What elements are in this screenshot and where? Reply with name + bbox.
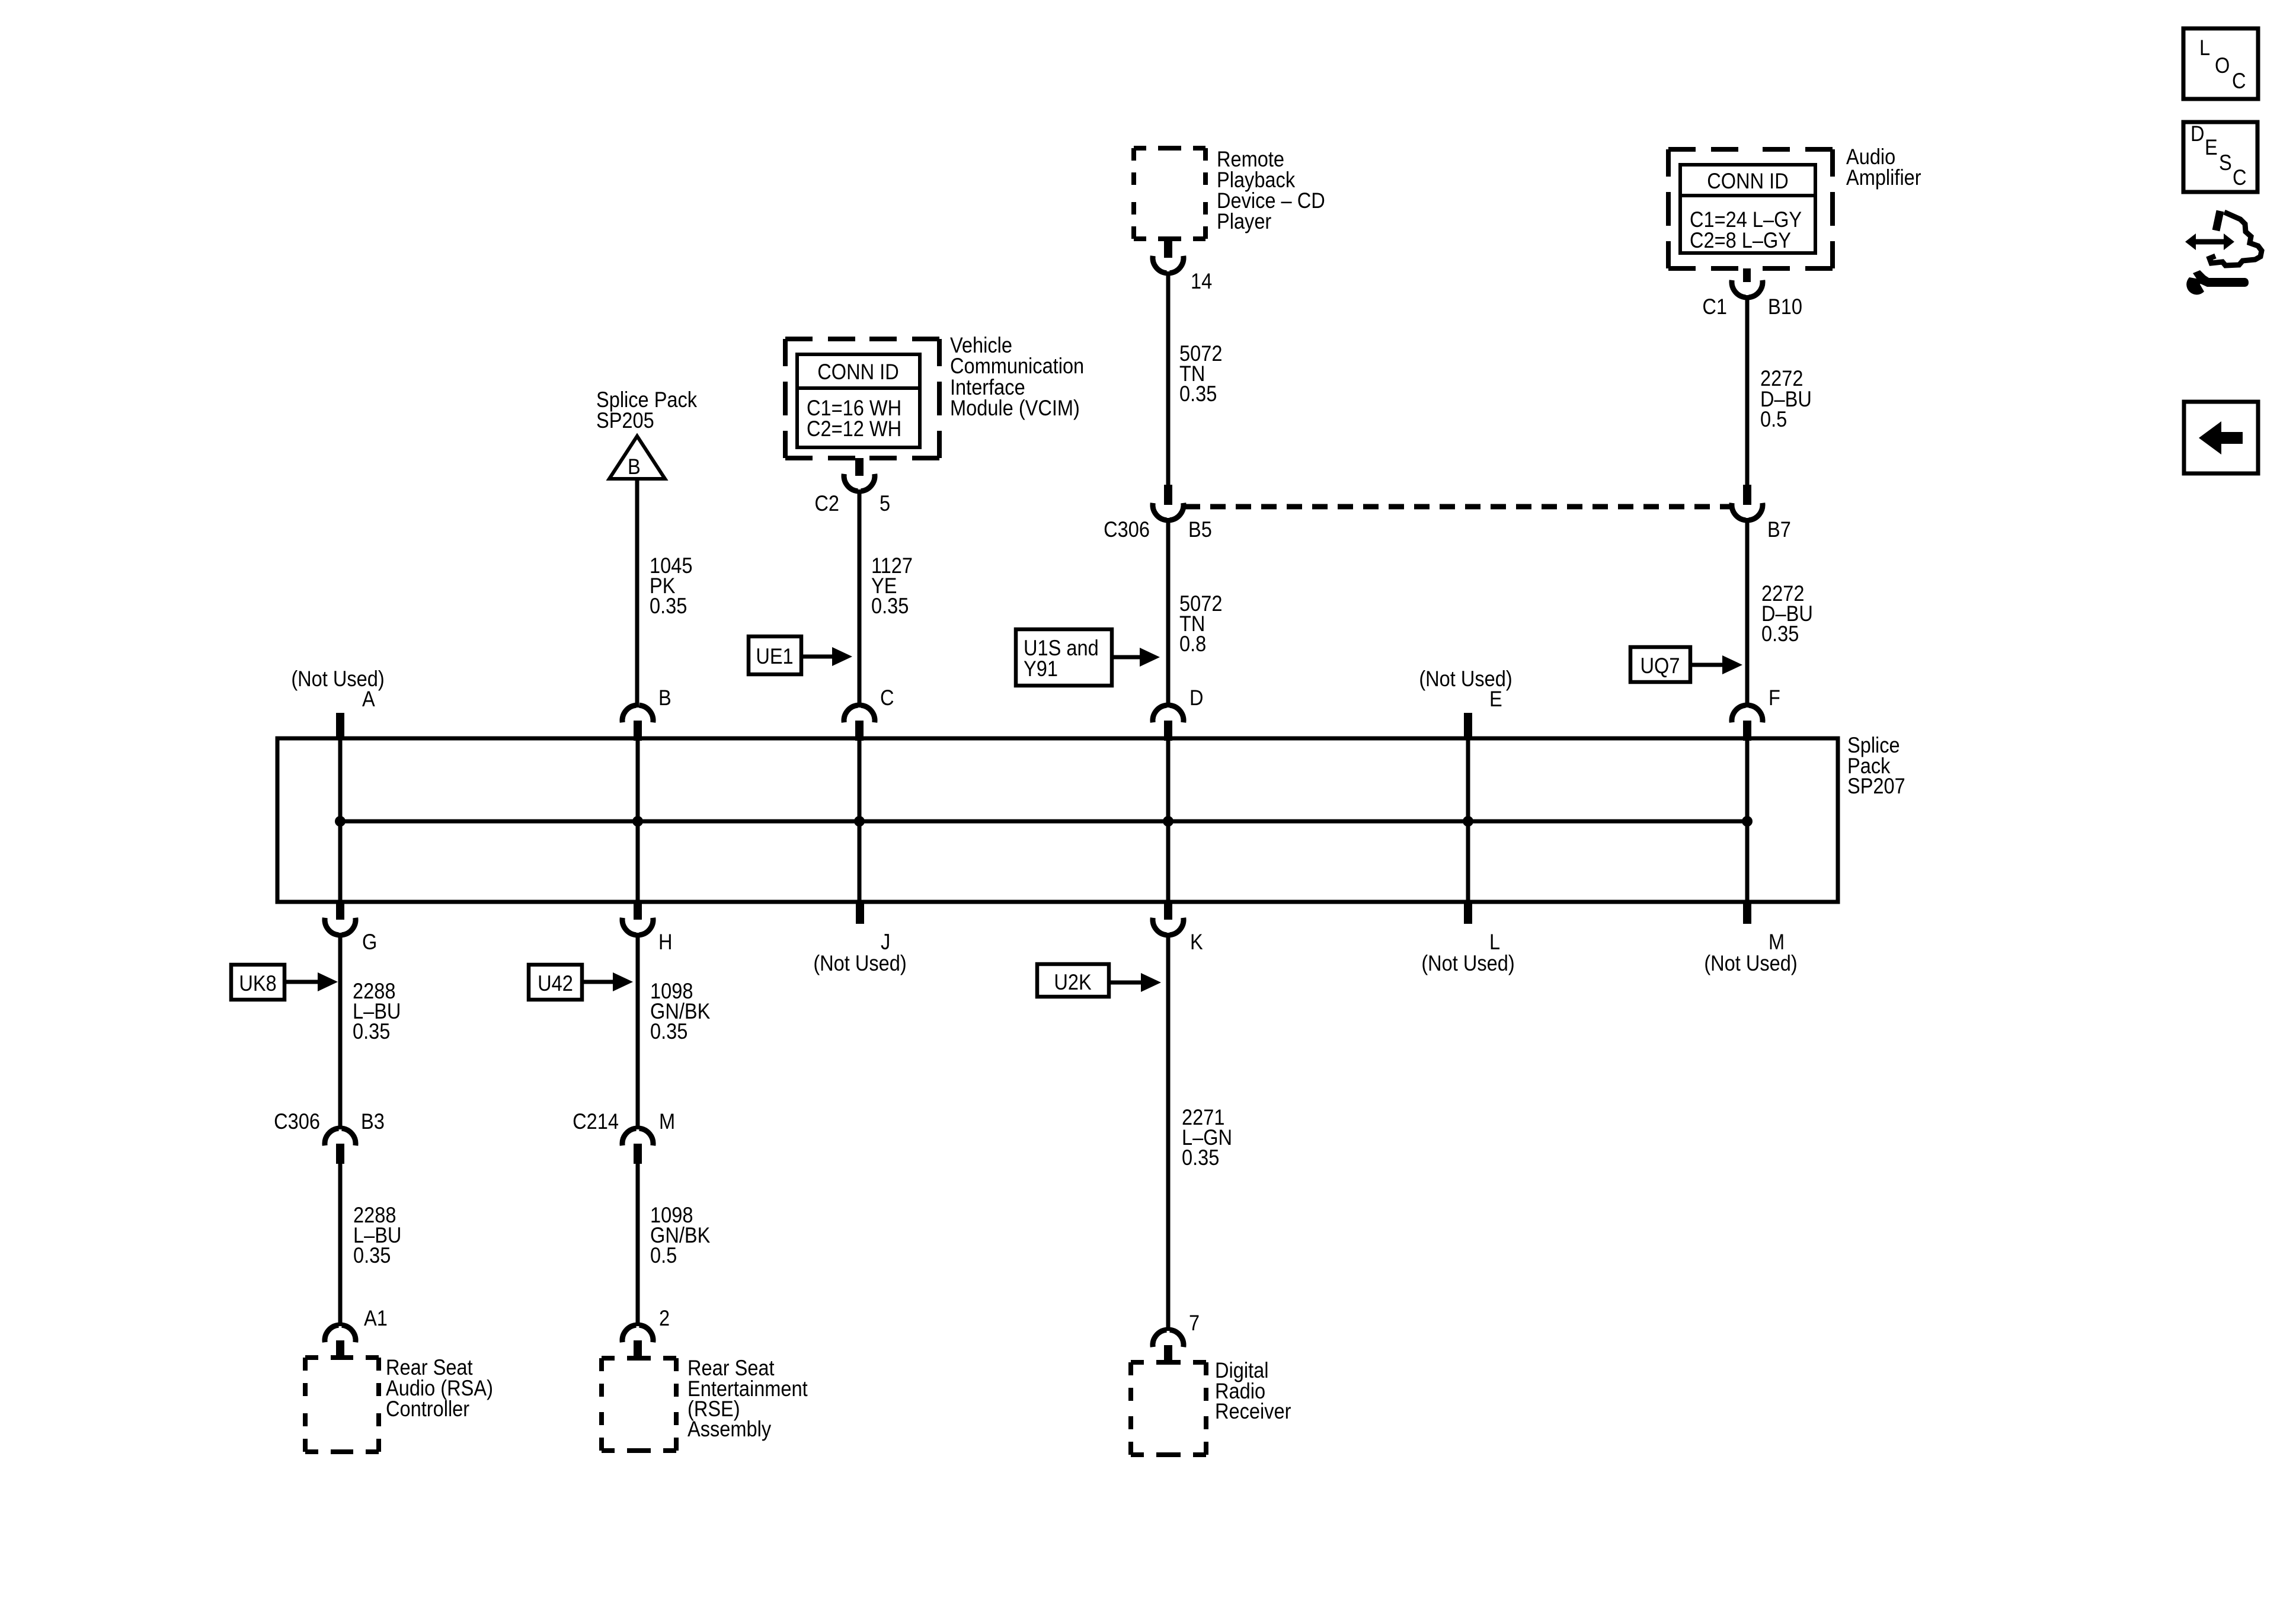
wire 5072 TN upper (CD player to C306 B5) xyxy=(1166,271,1171,485)
pin A label xyxy=(291,667,384,711)
pin E stub (not used) xyxy=(1464,713,1472,740)
connector-repair icon: terminal outline xyxy=(2209,211,2262,265)
U2K RPO box xyxy=(1037,964,1109,997)
junction dot D xyxy=(1163,816,1173,827)
node D-K column wire xyxy=(1166,740,1171,900)
wire label 2272 D-BU 0.5 xyxy=(1760,366,1812,431)
svg-text:G: G xyxy=(362,930,377,954)
junction dot B xyxy=(632,816,643,827)
svg-text:(Not Used): (Not Used) xyxy=(813,951,906,975)
svg-text:Module (VCIM): Module (VCIM) xyxy=(950,396,1080,420)
pin J stub (not used) xyxy=(856,900,864,924)
wire label 5072 TN 0.8 xyxy=(1179,591,1222,656)
svg-text:UQ7: UQ7 xyxy=(1641,654,1680,678)
svg-text:B5: B5 xyxy=(1188,517,1212,542)
rear seat entertainment RSE assembly dashed box xyxy=(602,1358,676,1451)
svg-text:7: 7 xyxy=(1189,1311,1200,1335)
svg-text:Assembly: Assembly xyxy=(687,1417,772,1441)
svg-text:14: 14 xyxy=(1191,269,1212,293)
svg-text:(Not Used): (Not Used) xyxy=(291,667,384,691)
VCIM connector C2 pin 5 xyxy=(844,458,875,491)
U2K arrow xyxy=(1109,973,1161,992)
svg-text:K: K xyxy=(1190,930,1203,954)
svg-text:S: S xyxy=(2219,151,2232,175)
UE1 RPO box xyxy=(749,636,801,674)
node C-J column wire xyxy=(858,740,862,900)
svg-text:0.35: 0.35 xyxy=(650,1019,687,1044)
dashed wire B5 to B7 xyxy=(1185,504,1731,510)
svg-text:B7: B7 xyxy=(1767,517,1791,542)
UK8 RPO box xyxy=(231,965,284,1000)
svg-text:O: O xyxy=(2215,53,2230,78)
svg-text:(Not Used): (Not Used) xyxy=(1704,951,1797,975)
wire label 2288 L-BU 0.35 upper xyxy=(353,979,401,1044)
svg-text:A1: A1 xyxy=(364,1306,388,1330)
connector-repair icon: double arrow xyxy=(2185,233,2234,250)
svg-text:0.35: 0.35 xyxy=(353,1019,390,1044)
node B-H column wire xyxy=(636,740,640,900)
wire label 2272 D-BU 0.35 xyxy=(1761,581,1813,646)
svg-text:B: B xyxy=(658,686,671,710)
UK8 arrow xyxy=(284,972,338,991)
svg-text:0.35: 0.35 xyxy=(1182,1145,1219,1170)
svg-text:SP205: SP205 xyxy=(596,408,654,433)
wire 1098 GN/BK lower (C214 M to RSE assembly) xyxy=(636,1163,640,1326)
audio amplifier name label xyxy=(1846,145,1921,190)
C306 B5 labels xyxy=(1104,517,1212,542)
C214 M labels xyxy=(573,1109,675,1134)
pin C connector xyxy=(844,705,875,741)
DESC nav box xyxy=(2183,121,2257,192)
svg-text:0.35: 0.35 xyxy=(871,594,909,618)
wire 5072 TN lower (C306 B5 to splice pack pin D) xyxy=(1166,518,1171,708)
svg-text:D: D xyxy=(1189,686,1204,710)
svg-text:F: F xyxy=(1769,686,1780,710)
wire label 1098 GN/BK 0.5 xyxy=(650,1203,710,1267)
wire 2272 D-BU upper (amplifier to B7) xyxy=(1745,295,1750,485)
UE1 arrow xyxy=(801,647,852,666)
node A-G column wire xyxy=(338,740,343,900)
digital radio receiver name label xyxy=(1215,1358,1291,1423)
wire 2272 D-BU lower (B7 to splice pack pin F) xyxy=(1745,518,1750,708)
digital radio receiver dashed box xyxy=(1131,1362,1206,1455)
svg-text:D: D xyxy=(2191,121,2205,146)
svg-text:2: 2 xyxy=(659,1306,670,1330)
pin M stub (not used) xyxy=(1743,900,1751,924)
svg-text:(Not Used): (Not Used) xyxy=(1421,951,1514,975)
svg-text:Controller: Controller xyxy=(386,1397,469,1421)
U1S and Y91 RPO box xyxy=(1016,629,1112,686)
splice pack SP205 triangle B xyxy=(609,436,665,479)
pin J label xyxy=(813,930,906,975)
amplifier connector C1 pin B10 xyxy=(1732,268,1763,297)
UQ7 arrow xyxy=(1690,655,1742,674)
splice pack SP207 box xyxy=(277,738,1838,902)
wire 1127 YE (VCIM to splice pack pin C) xyxy=(858,489,862,708)
pin G connector xyxy=(325,900,356,935)
pin K connector xyxy=(1153,900,1184,935)
pin D connector xyxy=(1153,705,1184,741)
svg-text:C214: C214 xyxy=(573,1109,619,1134)
svg-text:C2=8 L–GY: C2=8 L–GY xyxy=(1690,228,1791,252)
svg-text:E: E xyxy=(2205,135,2218,159)
svg-text:0.35: 0.35 xyxy=(650,594,687,618)
wire label 5072 TN 0.35 xyxy=(1179,341,1222,406)
U42 RPO box xyxy=(529,965,582,1000)
svg-text:SP207: SP207 xyxy=(1847,774,1905,798)
digital radio receiver connector pin 7 xyxy=(1153,1330,1184,1363)
svg-text:B: B xyxy=(628,454,641,479)
svg-text:B10: B10 xyxy=(1768,295,1802,319)
connector C214 pin M xyxy=(622,1128,653,1164)
VCIM name label xyxy=(950,333,1084,420)
splice pack SP205 label xyxy=(596,388,698,433)
wire label 1045 PK 0.35 xyxy=(650,553,692,618)
svg-text:0.35: 0.35 xyxy=(1761,622,1799,646)
audio amplifier outer dashed box xyxy=(1668,149,1833,268)
svg-text:H: H xyxy=(658,930,673,954)
svg-text:C: C xyxy=(2233,165,2247,190)
svg-text:CONN ID: CONN ID xyxy=(1707,169,1788,193)
wire label 1127 YE 0.35 xyxy=(871,553,913,618)
svg-text:UE1: UE1 xyxy=(756,644,793,668)
junction dot E xyxy=(1463,816,1473,827)
svg-text:CONN ID: CONN ID xyxy=(817,360,898,384)
connector C306 pin B5 xyxy=(1153,485,1184,520)
wire 2288 L-BU upper (pin G to C306 B3) xyxy=(338,933,343,1129)
svg-text:U2K: U2K xyxy=(1054,970,1091,994)
svg-text:0.8: 0.8 xyxy=(1179,632,1206,656)
UQ7 RPO box xyxy=(1630,647,1690,682)
pin M label xyxy=(1704,930,1797,975)
RSE assembly connector pin 2 xyxy=(622,1325,653,1359)
node F-M column wire xyxy=(1745,740,1750,900)
wire label 2288 L-BU 0.35 lower xyxy=(353,1203,401,1267)
U1S arrow xyxy=(1112,648,1160,667)
node E-L column wire xyxy=(1466,740,1470,900)
CD player name label xyxy=(1217,147,1325,233)
svg-text:0.5: 0.5 xyxy=(650,1243,677,1267)
wire 2271 L-GN (pin K to digital radio receiver) xyxy=(1166,933,1171,1331)
remote playback device CD player dashed box xyxy=(1134,148,1205,239)
svg-text:C: C xyxy=(880,686,894,710)
LOC nav box xyxy=(2183,28,2258,99)
svg-text:C306: C306 xyxy=(1104,517,1150,542)
audio amplifier CONN ID table xyxy=(1680,165,1815,253)
svg-text:(Not Used): (Not Used) xyxy=(1419,667,1512,691)
svg-text:Player: Player xyxy=(1217,209,1272,233)
svg-text:5: 5 xyxy=(880,491,890,516)
svg-text:0.35: 0.35 xyxy=(1179,382,1217,406)
junction dot F xyxy=(1742,816,1753,827)
junction dot A xyxy=(335,816,346,827)
VCIM CONN ID table xyxy=(797,354,920,447)
C306 B3 labels xyxy=(274,1109,385,1134)
VCIM outer dashed box xyxy=(785,339,939,458)
svg-text:B3: B3 xyxy=(361,1109,385,1134)
svg-text:UK8: UK8 xyxy=(239,971,276,996)
svg-text:U42: U42 xyxy=(538,971,573,996)
svg-text:C2: C2 xyxy=(814,491,839,516)
svg-text:Y91: Y91 xyxy=(1024,657,1058,681)
splice pack SP207 label xyxy=(1847,733,1905,798)
svg-text:C1: C1 xyxy=(1702,295,1727,319)
wire label 2271 L-GN 0.35 xyxy=(1182,1105,1232,1170)
pin B connector xyxy=(622,705,653,741)
svg-text:C: C xyxy=(2232,69,2246,93)
svg-text:M: M xyxy=(659,1109,675,1134)
RSA controller connector pin A1 xyxy=(325,1325,356,1359)
svg-text:C2=12 WH: C2=12 WH xyxy=(807,417,901,441)
rear seat audio RSA controller dashed box xyxy=(305,1358,379,1452)
pin A stub (not used) xyxy=(336,713,344,740)
CD player connector pin 14 xyxy=(1153,239,1184,273)
wire 2288 L-BU lower (C306 B3 to RSA controller) xyxy=(338,1163,343,1326)
svg-text:L: L xyxy=(2199,36,2210,60)
svg-text:C306: C306 xyxy=(274,1109,320,1134)
back arrow nav box xyxy=(2184,402,2258,473)
wire 1045 PK (triangle B to splice pack pin B) xyxy=(635,479,639,708)
wire label 1098 GN/BK 0.35 xyxy=(650,979,710,1044)
pin H connector xyxy=(622,900,653,935)
C1 B10 labels xyxy=(1702,295,1802,319)
RSA controller name label xyxy=(386,1355,493,1421)
pin L stub (not used) xyxy=(1464,900,1472,924)
pin F connector xyxy=(1732,705,1763,741)
svg-text:0.35: 0.35 xyxy=(353,1243,391,1267)
svg-text:0.5: 0.5 xyxy=(1760,407,1787,431)
pin E label xyxy=(1419,667,1512,711)
connector C306 pin B3 xyxy=(325,1128,356,1164)
bus wire inside SP207 xyxy=(340,820,1747,824)
connector-repair icon: wrench xyxy=(2186,270,2249,295)
pin L label xyxy=(1421,930,1514,975)
RSE assembly name label xyxy=(687,1356,808,1441)
connector B7 xyxy=(1732,485,1763,520)
wire 1098 GN/BK upper (pin H to C214 M) xyxy=(636,933,640,1129)
svg-text:Amplifier: Amplifier xyxy=(1846,165,1921,190)
svg-text:Receiver: Receiver xyxy=(1215,1399,1291,1423)
junction dot C xyxy=(854,816,865,827)
U42 arrow xyxy=(582,972,633,991)
VCIM connector labels C2 / 5 xyxy=(814,491,890,516)
